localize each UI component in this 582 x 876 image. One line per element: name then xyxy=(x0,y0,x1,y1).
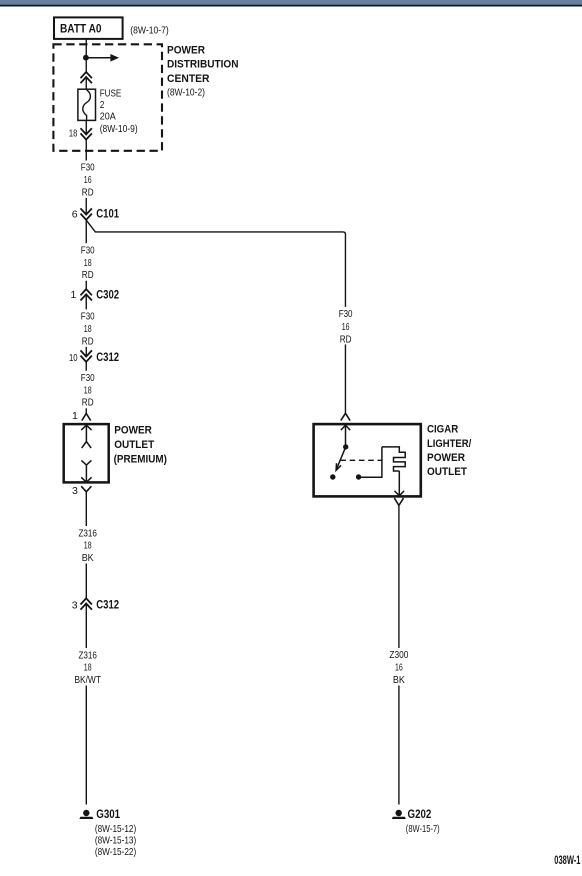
feed arrow to other circuits xyxy=(88,54,119,62)
svg-text:C302: C302 xyxy=(96,288,119,302)
wire C302 to C312 xyxy=(85,294,87,356)
svg-text:G301: G301 xyxy=(96,807,120,821)
cigar lighter internal return arrow (down) xyxy=(395,471,405,496)
wire chevron to fuse xyxy=(85,77,87,89)
ground G202 reference label xyxy=(406,823,440,835)
svg-text:3: 3 xyxy=(72,485,78,497)
power outlet internal return arrow (down) xyxy=(81,460,91,482)
wire label F30 16 RD (right branch) xyxy=(335,307,357,346)
svg-text:F30: F30 xyxy=(81,162,95,174)
svg-text:RD: RD xyxy=(82,269,94,281)
svg-text:18: 18 xyxy=(84,384,92,396)
PDC exit double chevron (down) pin 18 xyxy=(69,128,92,140)
svg-text:(8W-15-12): (8W-15-12) xyxy=(95,823,136,835)
svg-text:BK: BK xyxy=(82,552,94,564)
fuse value label FUSE 2 20A (8W-10-9) xyxy=(100,88,138,136)
svg-text:BK: BK xyxy=(393,674,405,686)
wire junction to PDC output connector xyxy=(85,61,87,72)
svg-text:18: 18 xyxy=(69,128,78,140)
svg-text:(8W-10-2): (8W-10-2) xyxy=(167,87,205,99)
svg-text:(PREMIUM): (PREMIUM) xyxy=(114,453,168,465)
wire cigar lighter to G202 ground xyxy=(398,505,400,804)
wire C101 to C302 xyxy=(85,220,87,289)
svg-text:POWER: POWER xyxy=(167,45,205,57)
connector C312 pin 3 double chevron (up) xyxy=(72,598,120,612)
svg-text:18: 18 xyxy=(84,257,92,269)
wire label Z300 16 BK xyxy=(386,648,412,686)
svg-text:F30: F30 xyxy=(339,308,353,320)
heater element contact dot xyxy=(356,474,361,479)
wire fuse to PDC exit connector xyxy=(85,120,87,134)
reference label (8W-10-7) xyxy=(130,25,169,37)
svg-text:POWER: POWER xyxy=(427,452,465,464)
switch lever with arrow xyxy=(336,447,346,470)
cigar lighter internal feed arrow (up) xyxy=(341,425,350,444)
svg-text:FUSE: FUSE xyxy=(100,88,122,100)
svg-text:C312: C312 xyxy=(96,350,119,364)
svg-text:6: 6 xyxy=(72,208,78,220)
label POWER OUTLET (PREMIUM) xyxy=(114,425,168,466)
ground G301 reference labels xyxy=(95,823,136,858)
svg-text:BK/WT: BK/WT xyxy=(74,674,101,686)
wire C312 to power outlet pin 1 xyxy=(85,362,87,414)
svg-text:1: 1 xyxy=(71,289,77,301)
svg-text:RD: RD xyxy=(340,334,352,346)
power outlet (premium) component box xyxy=(64,424,109,482)
svg-text:RD: RD xyxy=(82,397,94,409)
svg-text:OUTLET: OUTLET xyxy=(427,466,467,478)
wire label F30 18 RD xyxy=(77,309,99,347)
switch fixed contact dot (open) xyxy=(330,474,335,479)
svg-text:16: 16 xyxy=(342,321,350,333)
power outlet pin 3 connector half xyxy=(72,485,91,497)
label CIGAR LIGHTER/ POWER OUTLET xyxy=(427,423,472,478)
switch common contact dot xyxy=(343,444,348,449)
power outlet pin 1 connector half xyxy=(72,410,91,422)
wire contact dot to element xyxy=(359,476,382,478)
svg-text:Z316: Z316 xyxy=(78,527,97,539)
wire label F30 18 RD xyxy=(77,243,99,281)
PDC output double chevron (up) xyxy=(81,72,92,83)
svg-text:(8W-10-9): (8W-10-9) xyxy=(100,123,138,135)
svg-text:038W-1: 038W-1 xyxy=(554,853,580,867)
svg-text:(8W-15-22): (8W-15-22) xyxy=(95,846,136,858)
wire label Z316 18 BK/WT xyxy=(71,648,105,686)
svg-text:BATT A0: BATT A0 xyxy=(60,23,102,35)
wire branch C101 to cigar lighter (diagonal + horizontal + vertical) xyxy=(86,220,345,413)
battery feed box BATT A0 xyxy=(54,17,123,39)
svg-text:2: 2 xyxy=(100,99,105,111)
svg-text:POWER: POWER xyxy=(114,425,152,437)
svg-text:Z300: Z300 xyxy=(389,649,408,661)
svg-text:18: 18 xyxy=(84,540,92,552)
cigar lighter / power outlet component box xyxy=(314,424,421,496)
svg-text:LIGHTER/: LIGHTER/ xyxy=(427,438,472,450)
label POWER DISTRIBUTION CENTER (8W-10-2) xyxy=(167,45,239,99)
heating element meander xyxy=(382,447,405,471)
svg-text:F30: F30 xyxy=(81,311,95,323)
svg-text:RD: RD xyxy=(82,186,94,198)
ground G202 xyxy=(392,807,432,821)
svg-text:3: 3 xyxy=(72,599,78,611)
wire BATT A0 to junction xyxy=(85,39,87,58)
heating element spine xyxy=(381,447,383,478)
connector C312 pin 10 double chevron (down) xyxy=(69,350,119,364)
svg-text:G202: G202 xyxy=(408,807,432,821)
cigar lighter output connector half (female) xyxy=(394,498,403,505)
connector C101 pin 6 double chevron (down) xyxy=(72,207,120,221)
svg-text:(8W-15-7): (8W-15-7) xyxy=(406,823,440,835)
svg-text:OUTLET: OUTLET xyxy=(114,439,154,451)
cigar lighter pin connector half (male) xyxy=(341,413,350,420)
connector C302 pin 1 double chevron (up) xyxy=(71,288,120,302)
power distribution center dashed box xyxy=(53,44,162,151)
svg-text:16: 16 xyxy=(395,662,403,674)
svg-text:CENTER: CENTER xyxy=(167,73,210,85)
svg-text:16: 16 xyxy=(84,174,92,186)
svg-text:18: 18 xyxy=(84,323,92,335)
wire label F30 16 RD xyxy=(77,161,99,199)
svg-text:(8W-15-13): (8W-15-13) xyxy=(95,834,136,846)
svg-text:RD: RD xyxy=(82,335,94,347)
wire label F30 18 RD xyxy=(77,371,99,409)
svg-text:1: 1 xyxy=(72,410,78,422)
junction dot xyxy=(83,55,89,61)
svg-text:F30: F30 xyxy=(81,372,95,384)
power outlet internal feed arrow (up) xyxy=(81,425,91,448)
svg-text:Z316: Z316 xyxy=(78,649,97,661)
fuse 2 20A xyxy=(78,89,96,120)
svg-text:20A: 20A xyxy=(100,110,116,122)
svg-text:C101: C101 xyxy=(96,207,119,221)
svg-text:CIGAR: CIGAR xyxy=(427,423,458,435)
svg-text:F30: F30 xyxy=(81,244,95,256)
switch linkage dashed line xyxy=(340,459,381,461)
svg-text:DISTRIBUTION: DISTRIBUTION xyxy=(167,59,239,71)
wire PDC to C101 xyxy=(85,140,87,215)
wire power outlet to G301 ground xyxy=(85,492,87,805)
page number 038W-1 xyxy=(554,853,580,867)
svg-text:(8W-10-7): (8W-10-7) xyxy=(130,25,169,37)
svg-text:10: 10 xyxy=(69,352,78,364)
ground G301 xyxy=(79,807,120,821)
wire label Z316 18 BK xyxy=(75,526,101,564)
svg-text:18: 18 xyxy=(84,662,92,674)
svg-text:C312: C312 xyxy=(96,598,119,612)
